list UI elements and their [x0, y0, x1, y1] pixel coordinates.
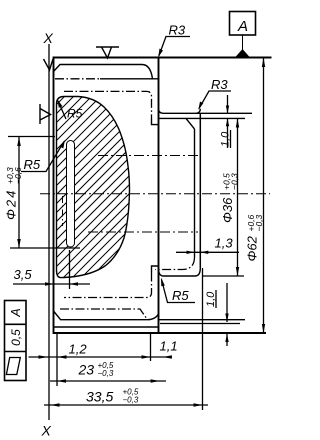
dim phi24 line: [18, 137, 20, 248]
flange bottom face: [159, 268, 201, 276]
surface finish mark left: [40, 104, 51, 124]
section blob outline (closed end dome): [57, 97, 130, 278]
surface finish mark top: [96, 47, 119, 58]
outer groove band bottom: [54, 311, 159, 320]
axis centerline: [40, 193, 270, 195]
svg-text:−0,3: −0,3: [254, 214, 264, 231]
bottom skirt ext line 2: [160, 323, 240, 325]
inner top step line: [55, 78, 100, 80]
dim 3.5: [13, 283, 90, 285]
inner cavity hidden outline bottom: [64, 273, 152, 298]
dim 1.2 / 1.1 line: [29, 356, 173, 358]
hatch of section blob: [0, 80, 288, 300]
svg-text:R5: R5: [172, 288, 189, 303]
svg-text:−0,3: −0,3: [230, 173, 240, 190]
svg-text:−0,3: −0,3: [98, 369, 114, 378]
dim 1.3: [176, 251, 239, 253]
svg-text:Φ36: Φ36: [220, 197, 235, 223]
surface finish mark at left top corner: [44, 59, 54, 70]
phantom line lower: [88, 231, 198, 233]
svg-text:Φ62: Φ62: [245, 235, 260, 261]
dimension graphics: [8, 58, 265, 407]
bore top silhouette: [159, 117, 246, 119]
svg-text:Φ24: Φ24: [4, 189, 19, 220]
leader R3 top: [159, 37, 190, 57]
label 1.0 top right (rotated): [220, 130, 232, 148]
phantom line upper: [98, 155, 198, 157]
flange inner wall: [194, 129, 196, 257]
dim 1.0 top right: [227, 95, 229, 113]
svg-text:R3: R3: [169, 23, 186, 38]
flange inner wall bottom arc: [155, 257, 195, 270]
inner cavity hidden outline top: [64, 91, 152, 118]
bore mouth chamfer: [186, 118, 195, 129]
leader R5 upper: [58, 101, 66, 119]
leaders R3 R5: [21, 37, 231, 303]
svg-text:33,5: 33,5: [86, 389, 113, 405]
flange top face: [159, 109, 253, 114]
groove centerline: [62, 196, 64, 226]
centerline X-X: [48, 44, 50, 420]
leader R3 right: [199, 91, 231, 109]
flange top corner round R3: [196, 109, 201, 114]
part outline left/top/bottom: [54, 58, 272, 334]
svg-text:1,3: 1,3: [215, 236, 234, 251]
main body right edge: [158, 58, 160, 334]
outer groove band top: [54, 65, 153, 79]
svg-text:0,5: 0,5: [9, 329, 23, 346]
svg-text:R5: R5: [24, 157, 41, 172]
svg-text:X: X: [43, 30, 54, 46]
svg-text:1,2: 1,2: [69, 342, 88, 357]
dim 1.0 bottom right: [226, 283, 228, 322]
svg-text:R5: R5: [67, 107, 83, 121]
svg-text:R3: R3: [211, 77, 228, 92]
svg-text:3,5: 3,5: [14, 267, 33, 282]
dim phi62: [263, 58, 265, 334]
leader R5 lower-left: [21, 142, 64, 172]
label phi36 (rotated): [220, 173, 240, 223]
svg-text:1,1: 1,1: [160, 339, 178, 354]
leader R5 bottom-right: [162, 280, 196, 303]
ext line phi36 bottom: [203, 275, 245, 277]
groove slot (annular groove, white): [67, 141, 75, 248]
svg-text:−0,6: −0,6: [13, 167, 23, 184]
svg-text:X: X: [41, 423, 52, 439]
inner cavity step top: [152, 119, 159, 125]
inner cavity hidden line lower: [60, 309, 148, 320]
svg-text:1,0: 1,0: [205, 291, 217, 307]
inner cavity step bottom: [152, 266, 159, 273]
dim phi36: [237, 118, 239, 276]
bottom skirt ext line 1: [159, 319, 246, 321]
ext lines phi24: [8, 136, 55, 138]
ext line 33.5 right: [202, 268, 204, 410]
bottom inner line: [54, 326, 159, 328]
svg-text:23: 23: [78, 362, 95, 378]
svg-text:A: A: [9, 308, 23, 317]
label phi62 (rotated): [245, 214, 265, 261]
svg-text:−0,3: −0,3: [123, 396, 139, 405]
label 1.0 bottom right (rotated): [205, 290, 217, 308]
label phi24 (rotated): [4, 167, 24, 220]
svg-text:A: A: [237, 18, 248, 35]
dim 33.5: [44, 404, 208, 406]
tolerance frame (flatness 0.5 A): [5, 301, 27, 381]
dim 23: [50, 380, 166, 382]
datum A symbol: [230, 12, 256, 58]
flange outer wall: [199, 113, 201, 268]
svg-text:1,0: 1,0: [220, 131, 232, 147]
